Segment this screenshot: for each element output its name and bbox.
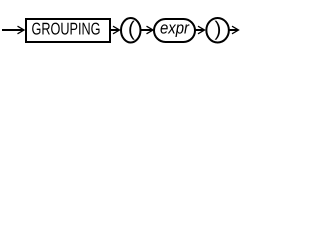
wire box to open-paren bbox=[111, 29, 119, 31]
arrowhead exit bbox=[232, 26, 239, 34]
svg-text:): ) bbox=[215, 17, 222, 40]
keyword box GROUPING bbox=[26, 19, 110, 42]
railroad syntax diagram: GROUPING ( expr ) bbox=[0, 0, 258, 52]
arrowhead into expr oval bbox=[147, 26, 154, 34]
oval expr bbox=[154, 19, 195, 42]
arrowhead into GROUPING box bbox=[18, 26, 25, 34]
svg-text:(: ( bbox=[128, 17, 135, 40]
wire open-paren to expr bbox=[141, 29, 153, 31]
svg-text:GROUPING: GROUPING bbox=[32, 20, 101, 39]
arrowhead into close-paren oval bbox=[198, 26, 205, 34]
wire entry bbox=[2, 29, 24, 31]
wire exit bbox=[229, 29, 238, 31]
oval open-paren bbox=[121, 18, 141, 43]
oval close-paren bbox=[206, 18, 229, 43]
svg-text:expr: expr bbox=[160, 18, 190, 37]
arrowhead into open-paren oval bbox=[113, 26, 120, 34]
wire expr to close-paren bbox=[195, 29, 204, 31]
